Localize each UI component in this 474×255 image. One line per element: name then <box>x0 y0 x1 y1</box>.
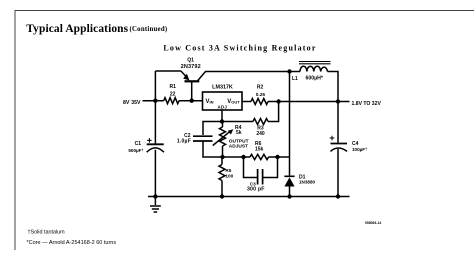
svg-text:R1: R1 <box>169 84 176 90</box>
svg-text:5k: 5k <box>236 130 242 136</box>
svg-text:C1: C1 <box>135 141 142 147</box>
svg-text:(Continued): (Continued) <box>130 26 168 33</box>
svg-text:*Core — Arnold A-254168-2 60 t: *Core — Arnold A-254168-2 60 turns <box>27 240 117 246</box>
svg-text:Low Cost 3A Switching Regulato: Low Cost 3A Switching Regulator <box>163 43 316 52</box>
svg-text:Typical Applications: Typical Applications <box>26 23 128 35</box>
svg-text:500µF†: 500µF† <box>128 148 143 153</box>
svg-text:VIN: VIN <box>206 99 214 105</box>
svg-text:300 pF: 300 pF <box>247 186 265 192</box>
svg-text:0.25: 0.25 <box>256 92 266 98</box>
svg-text:LM317K: LM317K <box>212 84 233 90</box>
svg-text:22: 22 <box>170 91 176 97</box>
svg-text:OUTPUT: OUTPUT <box>229 138 249 144</box>
svg-text:VOUT: VOUT <box>227 99 240 105</box>
svg-text:100: 100 <box>225 173 233 178</box>
svg-text:240: 240 <box>256 131 265 137</box>
svg-text:†Solid tantalum: †Solid tantalum <box>28 230 66 236</box>
svg-text:8V: 8V <box>123 100 130 106</box>
svg-text:1N3880: 1N3880 <box>299 180 316 185</box>
svg-text:600µH*: 600µH* <box>306 75 324 81</box>
svg-text:1.0µF: 1.0µF <box>177 138 191 144</box>
svg-text:R2: R2 <box>257 85 264 91</box>
svg-text:2N3792: 2N3792 <box>181 64 201 70</box>
svg-text:ADJ: ADJ <box>217 104 227 109</box>
svg-text:35V: 35V <box>131 100 141 106</box>
svg-text:908063-14: 908063-14 <box>365 221 381 225</box>
svg-text:L1: L1 <box>292 76 298 82</box>
svg-text:R5: R5 <box>225 168 231 173</box>
svg-text:100µF†: 100µF† <box>352 147 367 152</box>
svg-text:15k: 15k <box>255 147 264 153</box>
svg-text:Q1: Q1 <box>187 58 194 64</box>
svg-text:1.8V TO 32V: 1.8V TO 32V <box>352 101 382 107</box>
svg-text:ADJUST: ADJUST <box>229 144 248 150</box>
